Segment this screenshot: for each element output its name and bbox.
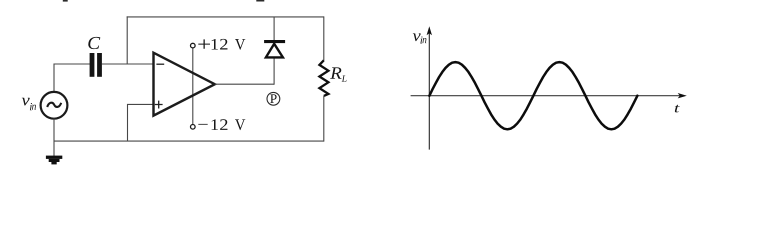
wire: right rail lower segment [323,96,325,142]
wire: diode cathode lead to top rail [273,17,275,41]
op-amp minus sign [156,63,164,65]
sine waveform v_in(t) [429,62,637,129]
label C [88,37,100,49]
op-amp U1 triangle [154,53,215,116]
diode D1 cathode bar [264,40,285,43]
diode D1 triangle (anode, pointing up) [266,44,283,58]
graph t axis [411,95,685,97]
capacitor C left plate [90,53,95,77]
wire: capacitor to inverting input [102,63,154,65]
-12V terminal circle [191,125,196,130]
graph v axis arrowhead [427,26,432,35]
wire: top feedback rail [127,16,324,18]
graph t axis arrowhead [678,93,687,98]
graph label v_in [413,33,427,43]
source sine tilde [47,103,61,107]
op-amp supply rail (through body) [192,48,194,125]
wire: source top corner to capacitor [54,64,90,92]
wire: op-amp output [215,83,274,85]
label +12 V [198,39,245,50]
wire: source bottom to ground [53,119,55,157]
label -12 V [198,119,245,130]
label R_L [330,67,346,81]
graph label t [675,105,680,113]
wire: bottom rail [54,140,324,142]
ground [46,156,62,165]
op-amp plus sign [155,101,163,109]
graph v axis [428,29,430,150]
label v_in [22,98,36,110]
capacitor C right plate [97,53,102,77]
+12V terminal circle [191,43,196,48]
source v_in circle [41,92,68,119]
resistor R_L zigzag [319,60,328,96]
wire: non-inverting input drop to bottom rail [128,104,154,141]
cropped text remnant top-middle [256,0,264,2]
wire: feedback drop to inverting-input node [126,16,128,64]
wire: output node up to diode anode [273,57,275,84]
wire: right rail upper segment [323,16,325,60]
node P circled label [267,92,280,105]
cropped text remnant top-left [63,0,68,2]
